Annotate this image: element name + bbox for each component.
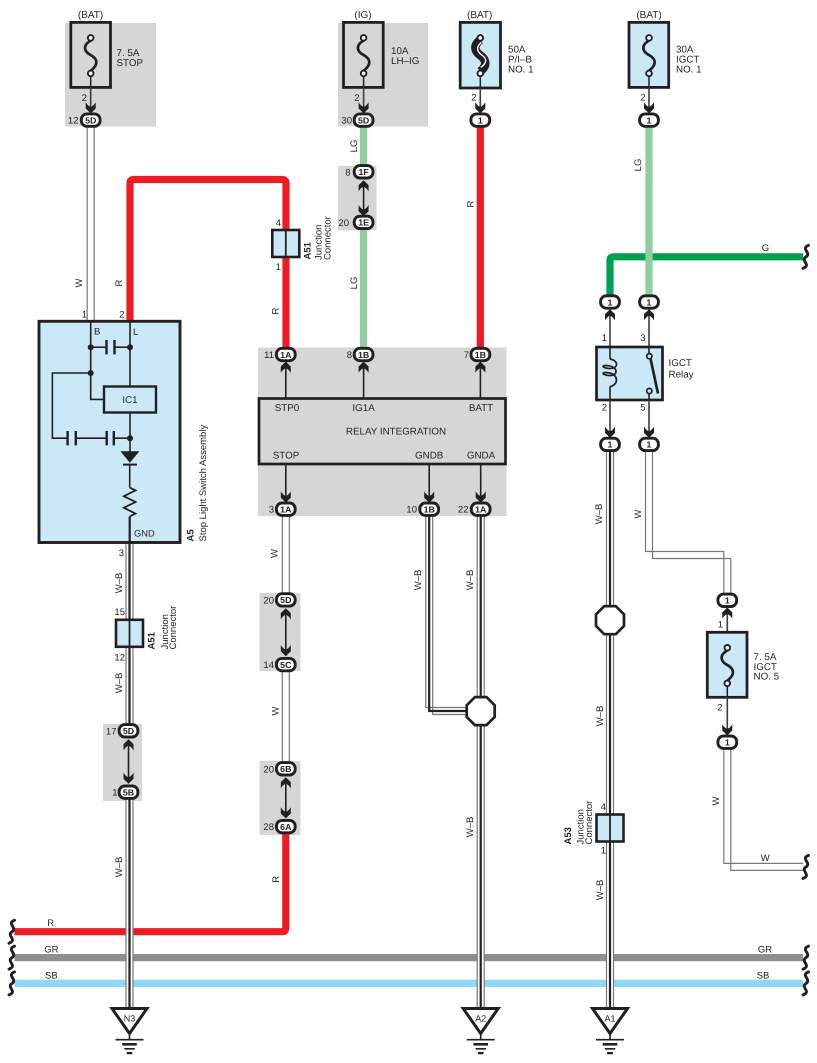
ground N3 (112, 1009, 147, 1054)
svg-text:17: 17 (106, 726, 117, 737)
svg-text:GR: GR (44, 945, 58, 956)
break symbol right end of G wire (803, 245, 809, 268)
wire W-B from splice octagon down to ground A2 (477, 724, 484, 1009)
gray shaded panel behind connector pair 6B/6A (260, 761, 301, 835)
IGCT relay pin 2 line (609, 400, 611, 437)
svg-text:5D: 5D (280, 595, 291, 605)
svg-text:6A: 6A (280, 822, 292, 832)
svg-text:12: 12 (68, 116, 79, 127)
diode D (120, 451, 139, 464)
svg-text:W: W (270, 706, 281, 715)
svg-text:1: 1 (725, 596, 730, 606)
ground A1 (593, 1009, 628, 1054)
connector 1A pin 11 of relay integration (264, 348, 295, 361)
svg-text:3: 3 (119, 548, 124, 559)
break symbol right end of GR wire (803, 946, 809, 969)
svg-text:2: 2 (471, 93, 476, 104)
svg-text:1: 1 (647, 440, 652, 450)
wire G horizontal from right edge to IGCT relay pin 1 (610, 257, 803, 301)
svg-text:1B: 1B (358, 350, 369, 360)
svg-text:W–B: W–B (114, 857, 125, 878)
svg-text:1: 1 (718, 620, 723, 631)
pin line BATT (479, 362, 481, 399)
svg-text:1: 1 (647, 297, 652, 307)
fuse 7.5A IGCT NO.5 (707, 632, 747, 697)
svg-text:1: 1 (602, 333, 607, 344)
svg-text:(BAT): (BAT) (78, 10, 103, 21)
connector 1 below fuse 7.5A IGCT NO.5 (718, 736, 737, 748)
svg-text:W: W (633, 509, 644, 518)
gray shaded panel behind RELAY INTEGRATION (258, 348, 507, 517)
break symbol left end of SB wire (9, 972, 15, 995)
svg-text:15: 15 (114, 607, 125, 618)
svg-text:(BAT): (BAT) (467, 10, 492, 21)
internal wire loop from B node to capacitors (52, 373, 90, 438)
svg-text:N3: N3 (124, 1014, 136, 1024)
IGCT relay pin 3 line (648, 310, 650, 347)
gray shaded panel behind junction connector A51 pins 1F/1E (338, 166, 377, 231)
wire LG from fuse 10A LH-IG to junction connector 1F (360, 126, 367, 168)
svg-text:7: 7 (464, 350, 469, 361)
connector 1 below IGCT relay pin 2 (601, 438, 620, 450)
wire LG from fuse 30A IGCT NO.1 down to IGCT relay pin 3 (crosses G wire) (645, 126, 652, 296)
svg-text:W–B: W–B (465, 570, 476, 591)
svg-text:1A: 1A (280, 350, 292, 360)
stop light switch assembly designation A5 (186, 425, 210, 542)
wire W from connector 5C down to connector 6B (282, 671, 289, 763)
svg-text:G: G (762, 243, 769, 254)
connector 5D pin 30 of fuse 10A LH-IG (341, 114, 373, 127)
svg-text:20: 20 (263, 764, 274, 775)
svg-text:1: 1 (608, 440, 613, 450)
svg-text:Relay: Relay (669, 370, 694, 381)
svg-text:A51: A51 (303, 241, 314, 259)
svg-text:1: 1 (608, 297, 613, 307)
svg-text:Connector: Connector (323, 216, 334, 260)
fuse 7.5A STOP (71, 22, 111, 87)
wire R from fuse 50A P/I-B down to relay BATT (477, 126, 484, 348)
wire W from fuse IGCT NO.5 bottom connector down then right to edge break (724, 749, 803, 870)
svg-text:BATT: BATT (469, 403, 493, 414)
connector 1 of fuse 50A P/I-B NO.1 (471, 114, 490, 126)
svg-text:8: 8 (347, 350, 352, 361)
svg-text:Connector: Connector (584, 801, 595, 845)
IGCT relay box (597, 347, 663, 400)
stop light switch assembly A5 box (39, 321, 180, 542)
svg-text:14: 14 (263, 660, 274, 671)
wire link between 6B and 6A (285, 778, 287, 813)
svg-text:5D: 5D (123, 726, 134, 736)
junction connector A51 designation label (303, 216, 334, 260)
fuse 10A LH-IG value text (391, 46, 419, 67)
connector 1 below IGCT relay pin 5 (640, 438, 659, 450)
svg-text:W–B: W–B (594, 504, 605, 525)
svg-text:1F: 1F (358, 167, 369, 177)
pin line IG1A (363, 362, 365, 399)
svg-text:IGCT: IGCT (669, 358, 692, 369)
svg-text:1: 1 (478, 115, 483, 125)
connector 1A pin 22 of relay integration (458, 503, 490, 516)
junction connector A53 box (597, 815, 624, 842)
series capacitors to ground network (68, 431, 130, 445)
svg-text:(IG): (IG) (354, 10, 371, 21)
svg-text:30: 30 (341, 116, 352, 127)
svg-text:5: 5 (640, 403, 645, 414)
svg-text:IC1: IC1 (122, 395, 137, 406)
connector 5D pin 12 of fuse 7.5A STOP (68, 114, 100, 127)
wire W-B from splice octagon through junction connector A53 to ground A1 (607, 634, 614, 1009)
svg-text:11: 11 (264, 350, 274, 361)
svg-text:1: 1 (112, 788, 117, 799)
svg-text:LG: LG (633, 159, 644, 172)
gray shaded panel behind fuse 10A LH-IG (338, 23, 428, 127)
relay integration terminal labels bottom row (273, 451, 496, 462)
svg-text:W: W (74, 278, 85, 287)
svg-text:8: 8 (345, 167, 350, 178)
svg-text:(BAT): (BAT) (636, 10, 661, 21)
svg-text:A53: A53 (563, 827, 574, 844)
svg-text:W–B: W–B (114, 673, 125, 694)
splice point octagon on W-B wire to A1 (596, 606, 624, 634)
connector 1 of fuse 30A IGCT NO.1 (640, 114, 659, 126)
node dot on L line (127, 344, 133, 350)
svg-text:A5: A5 (186, 529, 197, 542)
svg-text:NO. 5: NO. 5 (754, 672, 780, 683)
svg-text:W–B: W–B (595, 880, 606, 901)
fuse 30A IGCT NO.1 value text (676, 45, 702, 76)
fuse 30A IGCT NO.1 (629, 22, 669, 87)
wire link between 5D and 5C (285, 609, 287, 651)
svg-text:1E: 1E (358, 218, 369, 228)
fuse 50A P/I-B NO.1 value text (508, 45, 534, 76)
svg-text:6B: 6B (280, 764, 291, 774)
connector 6B pin 20 (263, 763, 295, 776)
svg-text:1B: 1B (475, 350, 486, 360)
pin line STP0 (285, 362, 287, 399)
wire W-B from relay GNDB 1B down then right to splice octagon (426, 516, 466, 715)
svg-text:1: 1 (725, 738, 730, 748)
IGCT relay pin 1 line (609, 310, 611, 347)
connector 1A pin 3 of relay integration (269, 503, 295, 516)
connector 5D pin 17 (106, 725, 138, 738)
svg-text:B: B (94, 327, 100, 338)
svg-text:3: 3 (640, 333, 645, 344)
wire W-B from switch GND pin 3 down to connector 5D (126, 543, 133, 726)
svg-text:1A: 1A (280, 505, 292, 515)
svg-text:Connector: Connector (168, 606, 179, 650)
svg-text:RELAY INTEGRATION: RELAY INTEGRATION (346, 427, 446, 438)
wire link between 1F and 1E (363, 181, 365, 216)
connector 5C pin 14 (263, 658, 295, 671)
internal wire from B terminal to IC1 (91, 321, 104, 399)
junction connector A51 box on red wire (272, 230, 299, 257)
connector 1F pin 8 (345, 166, 373, 179)
fuse 10A LH-IG (344, 22, 384, 87)
internal wire from L terminal down (129, 321, 131, 386)
svg-text:NO. 1: NO. 1 (676, 64, 702, 75)
connector 5B pin 1 (112, 786, 138, 799)
relay integration box (259, 399, 506, 465)
IGCT relay name (669, 358, 694, 381)
break symbol right end of SB wire (803, 972, 809, 995)
node dot junction on B line (88, 370, 94, 376)
break symbol left end of GR wire (9, 946, 15, 969)
svg-text:W–B: W–B (465, 817, 476, 838)
wire GR horizontal across bottom (15, 954, 804, 961)
svg-text:2: 2 (119, 310, 124, 321)
IC1 block (104, 387, 156, 413)
junction connector A53 designation label (563, 801, 595, 845)
break symbol left end of R wire (9, 920, 15, 943)
svg-text:2: 2 (717, 703, 722, 714)
gray shaded panel behind fuse 7.5A STOP (65, 23, 156, 127)
relay integration terminal labels top row (275, 403, 493, 414)
svg-text:R: R (271, 307, 282, 314)
resistor R (124, 488, 136, 517)
svg-text:5D: 5D (358, 115, 369, 125)
internal wire from IC1 down (129, 413, 131, 452)
IGCT relay coil (603, 347, 616, 400)
svg-text:3: 3 (269, 505, 274, 516)
connector 1 above IGCT relay pin 3 (640, 296, 659, 308)
connector 1B pin 7 of relay integration (464, 348, 490, 361)
svg-text:2: 2 (640, 93, 645, 104)
svg-text:L: L (133, 327, 138, 338)
svg-text:2: 2 (602, 403, 607, 414)
wire R from connector 6A down and left to left edge break (15, 832, 286, 932)
gray shaded panel behind connector pair 5D/5B (103, 724, 142, 801)
svg-text:1: 1 (276, 262, 281, 273)
fuse 7.5A STOP value text (117, 48, 144, 69)
svg-text:20: 20 (338, 218, 349, 229)
svg-text:A2: A2 (475, 1014, 486, 1024)
svg-text:20: 20 (263, 595, 274, 606)
svg-text:W: W (761, 853, 770, 864)
wire W from fuse 7.5A STOP connector 5D down to switch pin 1 (87, 127, 94, 321)
svg-text:NO. 1: NO. 1 (508, 64, 534, 75)
connector 1E pin 20 (338, 216, 373, 229)
svg-text:1: 1 (647, 115, 652, 125)
svg-text:GND: GND (134, 529, 155, 539)
wire W-B from connector 5B down to ground N3 (126, 798, 133, 1009)
wire W from relay STOP 1A down to connector 5D (282, 516, 289, 594)
svg-text:SB: SB (45, 971, 58, 982)
pin line GNDB (428, 464, 430, 502)
svg-text:LG: LG (349, 140, 360, 153)
svg-text:1B: 1B (424, 505, 435, 515)
gray shaded panel behind connector pair 5D/5C (260, 593, 301, 671)
svg-text:W: W (270, 549, 281, 558)
svg-text:GNDB: GNDB (415, 451, 444, 462)
svg-text:1: 1 (82, 310, 87, 321)
wire R from stop light switch L terminal up and over to junction connector A51 and relay STP0 (130, 180, 286, 349)
svg-text:1A: 1A (475, 505, 487, 515)
svg-text:R: R (465, 200, 476, 207)
connector 1 above IGCT relay pin 1 (601, 296, 620, 308)
svg-text:LH–IG: LH–IG (391, 56, 419, 67)
break symbol right end of W wire (803, 855, 809, 878)
ground A2 (463, 1009, 498, 1054)
svg-text:LG: LG (349, 277, 360, 290)
connector 1B pin 10 of relay integration (406, 503, 438, 516)
connector 1 above fuse 7.5A IGCT NO.5 (718, 594, 737, 606)
fuse 50A P/I-B NO.1 (460, 22, 500, 88)
wire W-B from relay GNDA 1A down to splice octagon (477, 516, 484, 698)
internal wire from diode to resistor (129, 465, 131, 488)
svg-text:A51: A51 (147, 631, 158, 649)
svg-text:A1: A1 (604, 1014, 615, 1024)
wire LG from junction connector 1E to relay IG1A (360, 227, 367, 348)
connector 1B pin 8 of relay integration (347, 348, 373, 361)
svg-text:W–B: W–B (595, 706, 606, 727)
wire link between 5D and 5B (128, 740, 130, 779)
splice point octagon joining GNDB and GNDA W-B wires (467, 697, 495, 725)
svg-text:28: 28 (263, 822, 274, 833)
svg-text:STOP: STOP (117, 58, 144, 69)
svg-text:SB: SB (757, 971, 770, 982)
svg-text:10: 10 (406, 505, 417, 516)
connector 6A pin 28 (263, 820, 295, 833)
svg-text:22: 22 (458, 505, 469, 516)
pin line STOP (285, 464, 287, 502)
svg-text:4: 4 (601, 802, 606, 813)
svg-text:Stop Light Switch Assembly: Stop Light Switch Assembly (198, 425, 209, 542)
svg-text:W–B: W–B (413, 570, 424, 591)
IGCT relay switch contacts (647, 347, 658, 400)
wire W-B from IGCT relay pin 2 down to splice octagon (607, 451, 614, 607)
junction connector A51 designation label (W-B wire) (147, 606, 180, 650)
connector 5D pin 20 (263, 594, 295, 607)
svg-text:STP0: STP0 (275, 403, 300, 414)
svg-text:2: 2 (354, 93, 359, 104)
wire SB horizontal across bottom (15, 980, 804, 987)
pin line GNDA (480, 464, 482, 502)
node dot below IC1 (127, 435, 133, 441)
svg-text:R: R (47, 918, 54, 929)
node dot on B line (88, 344, 94, 350)
svg-text:12: 12 (114, 653, 125, 664)
svg-text:R: R (271, 876, 282, 883)
svg-text:2: 2 (82, 93, 87, 104)
svg-text:IG1A: IG1A (352, 403, 375, 414)
svg-text:STOP: STOP (273, 451, 300, 462)
svg-text:5C: 5C (280, 660, 292, 670)
fuse 7.5A IGCT NO.5 value text (754, 652, 780, 683)
svg-text:1: 1 (601, 846, 606, 857)
svg-text:R: R (114, 279, 125, 286)
wire W from IGCT relay pin 5 down, right, down to IGCT NO.5 fuse connector (646, 451, 731, 594)
svg-text:4: 4 (276, 218, 281, 229)
capacitor between B and L (91, 340, 130, 354)
svg-text:5B: 5B (123, 788, 134, 798)
svg-text:5D: 5D (85, 115, 96, 125)
svg-text:GR: GR (758, 945, 772, 956)
svg-text:GNDA: GNDA (467, 451, 496, 462)
IGCT relay pin 5 line (648, 400, 650, 437)
svg-text:W–B: W–B (114, 573, 125, 594)
svg-text:W: W (711, 796, 722, 805)
internal wire from resistor to GND pin 3 (129, 517, 131, 543)
